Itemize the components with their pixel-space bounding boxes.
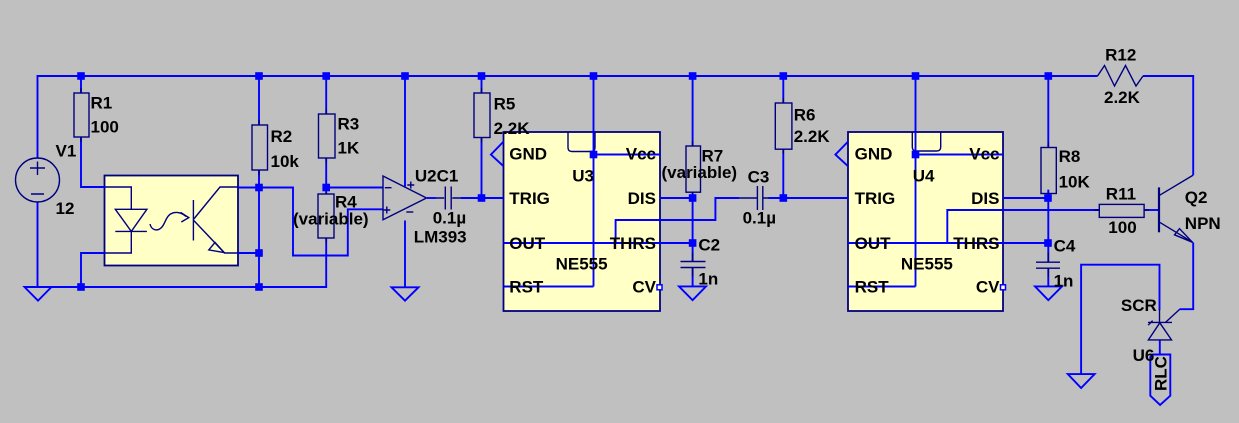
svg-text:SCR: SCR [1121,296,1157,315]
svg-text:0.1µ: 0.1µ [433,209,466,228]
svg-text:RLC: RLC [1152,356,1171,391]
svg-text:10K: 10K [1059,173,1091,192]
svg-text:C3: C3 [748,168,770,187]
svg-text:TRIG: TRIG [855,189,896,208]
svg-text:U2C1: U2C1 [415,167,458,186]
svg-text:Q2: Q2 [1185,188,1208,207]
svg-text:0.1µ: 0.1µ [743,209,776,228]
svg-text:1n: 1n [698,270,718,289]
svg-text:Vcc: Vcc [626,145,656,164]
svg-text:Vcc: Vcc [969,145,999,164]
svg-text:R8: R8 [1059,147,1081,166]
svg-text:R11: R11 [1106,185,1136,204]
svg-text:1n: 1n [1054,272,1074,291]
svg-text:LM393: LM393 [414,228,467,247]
svg-text:CV: CV [632,278,656,297]
svg-text:R6: R6 [794,106,816,125]
svg-text:GND: GND [855,145,893,164]
svg-text:RST: RST [509,278,544,297]
svg-text:C2: C2 [698,236,720,255]
svg-text:R2: R2 [271,127,293,146]
svg-text:12: 12 [56,199,75,218]
svg-text:NE555: NE555 [556,255,608,274]
svg-text:10k: 10k [271,152,300,171]
svg-text:NPN: NPN [1185,214,1221,233]
svg-text:V1: V1 [56,142,77,161]
svg-text:TRIG: TRIG [509,189,550,208]
svg-text:(variable): (variable) [293,210,369,229]
svg-text:100: 100 [1108,218,1136,237]
svg-text:GND: GND [509,145,547,164]
svg-text:NE555: NE555 [901,255,953,274]
svg-text:R1: R1 [91,94,113,113]
svg-text:C4: C4 [1054,237,1076,256]
svg-text:U4: U4 [913,167,935,186]
svg-text:(variable): (variable) [662,163,738,182]
svg-text:THRS: THRS [953,234,999,253]
svg-text:R3: R3 [338,115,360,134]
svg-text:R12: R12 [1105,46,1136,65]
svg-text:2.2K: 2.2K [1104,88,1141,107]
svg-text:OUT: OUT [855,234,892,253]
svg-text:CV: CV [976,278,1000,297]
svg-text:DIS: DIS [971,189,999,208]
svg-text:100: 100 [91,118,119,137]
svg-text:RST: RST [855,278,890,297]
svg-text:2.2K: 2.2K [494,119,531,138]
svg-text:U3: U3 [572,167,594,186]
svg-text:2.2K: 2.2K [794,127,831,146]
svg-text:OUT: OUT [509,234,546,253]
svg-text:R5: R5 [494,95,516,114]
svg-text:DIS: DIS [628,189,656,208]
svg-text:1K: 1K [338,139,360,158]
svg-text:THRS: THRS [610,234,656,253]
